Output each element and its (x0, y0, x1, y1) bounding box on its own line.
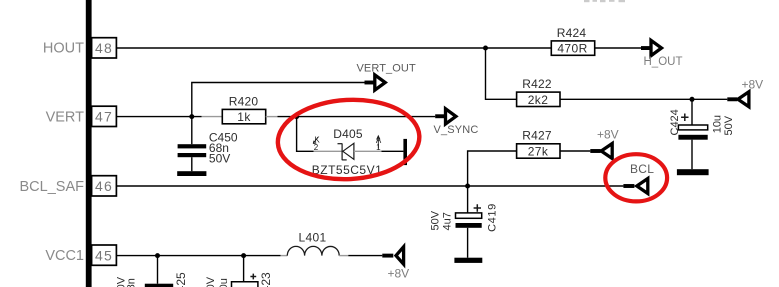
wire junction to C450 (191, 117, 193, 145)
lead L401 right (grey) (339, 255, 348, 257)
arrow VERT_OUT (365, 75, 386, 90)
svg-text:50V: 50V (723, 115, 735, 135)
lead R420 left (grey) (202, 116, 223, 118)
plus sign C423 (250, 274, 256, 280)
pin name K (313, 135, 320, 144)
svg-text:4u7: 4u7 (442, 212, 454, 230)
wire R427 to +8V (560, 150, 590, 152)
capacitor C419 (429, 203, 498, 232)
svg-text:470R: 470R (557, 42, 587, 56)
svg-text:45: 45 (95, 247, 113, 263)
svg-text:C425: C425 (174, 272, 188, 287)
pin 47 (92, 106, 117, 126)
svg-text:46: 46 (95, 178, 113, 194)
svg-text:50V: 50V (429, 210, 441, 230)
svg-text:L401: L401 (299, 230, 327, 244)
svg-text:V_SYNC: V_SYNC (434, 124, 479, 136)
lead R420 right (grey) (266, 116, 278, 118)
wire HOUT junction down to R422 (486, 48, 517, 99)
capacitor C450 (178, 130, 238, 165)
wire pin48 to R424 (117, 47, 552, 49)
svg-text:10u: 10u (711, 115, 723, 133)
wire L401 to +8V (348, 255, 382, 257)
terminal bar D405 anode (403, 139, 407, 165)
wire R420 to V_SYNC (278, 116, 436, 118)
node VCC1 junction 2 (241, 253, 246, 258)
arrow V_SYNC (435, 109, 456, 124)
wire pin45 to L401 (117, 255, 281, 257)
wire junction down to C419 (467, 186, 469, 213)
node VERT junction 2 (294, 114, 299, 119)
ground C424 (677, 169, 709, 175)
svg-text:10u: 10u (218, 278, 230, 287)
red ellipse around D405 (276, 96, 422, 183)
wire pin47 to R420 (117, 116, 202, 118)
wire junction down to C425 (157, 256, 159, 284)
svg-text:50V: 50V (205, 276, 217, 287)
svg-text:+8V: +8V (742, 78, 764, 92)
svg-text:HOUT: HOUT (43, 41, 84, 57)
capacitor C423 plate (cut off) (232, 282, 258, 287)
wire C450 to ground (191, 157, 193, 171)
arrow +8V middle (590, 144, 612, 159)
svg-text:47: 47 (95, 109, 113, 125)
svg-text:VERT_OUT: VERT_OUT (357, 62, 416, 74)
wire C424 to ground (691, 140, 693, 170)
svg-text:BCL_SAF: BCL_SAF (20, 179, 85, 195)
svg-text:27k: 27k (528, 145, 549, 159)
pin 46 (92, 176, 117, 196)
wire junction down to C424 (691, 99, 693, 125)
ground C419 (454, 258, 482, 263)
svg-text:C424: C424 (669, 109, 681, 135)
svg-text:C419: C419 (486, 203, 498, 232)
svg-text:R427: R427 (522, 129, 552, 143)
svg-text:+8V: +8V (597, 128, 619, 142)
wire R422 to +8V (560, 98, 727, 100)
arrow H_OUT (641, 40, 662, 55)
resistor R422 (517, 77, 560, 107)
capacitor C424 (669, 109, 735, 139)
svg-text:C423: C423 (259, 272, 273, 287)
lead D405 cathode (grey) (314, 150, 342, 152)
node C424 junction (690, 97, 695, 102)
node VCC1 junction 1 (155, 253, 160, 258)
svg-text:H_OUT: H_OUT (644, 56, 683, 68)
wire junction down to C423 (243, 256, 245, 282)
node HOUT junction (483, 46, 488, 51)
wire junction up to R427 (468, 151, 517, 186)
node VERT junction 1 (189, 114, 194, 119)
lead L401 left (grey) (281, 255, 288, 257)
arrow +8V bottom (382, 247, 403, 264)
red ellipse around BCL (605, 154, 667, 201)
wire C419 to ground (467, 228, 469, 258)
svg-text:2k2: 2k2 (528, 93, 549, 107)
ground C450 (177, 171, 206, 176)
zener diode D405 (338, 143, 354, 160)
resistor R427 (517, 129, 560, 159)
inductor L401 (287, 246, 339, 255)
node BCL_SAF junction (465, 184, 470, 189)
IC edge bar (86, 0, 92, 287)
svg-text:1: 1 (376, 143, 381, 152)
pin 48 (92, 38, 117, 58)
wire branch up to VERT_OUT (192, 83, 365, 117)
svg-text:68n: 68n (126, 278, 138, 287)
svg-text:BCL: BCL (630, 162, 654, 176)
svg-text:VCC1: VCC1 (45, 248, 84, 264)
pin name A (376, 136, 382, 149)
pin 45 (92, 245, 117, 265)
svg-text:+8V: +8V (388, 267, 410, 281)
svg-text:R422: R422 (522, 77, 552, 91)
arrow BCL (623, 179, 647, 194)
top cut-off label fragment (584, 0, 625, 2)
svg-text:2: 2 (314, 143, 319, 152)
wire D405 to terminal bar (382, 150, 404, 152)
svg-text:R424: R424 (557, 26, 587, 40)
capacitor C425 plate (cut off) (145, 284, 173, 287)
lead D405 anode (grey) (354, 150, 382, 152)
svg-text:R420: R420 (229, 94, 259, 108)
svg-text:48: 48 (95, 40, 113, 56)
wire R424 to H_OUT arrow (595, 47, 642, 49)
wire pin46 to BCL (117, 185, 624, 187)
wire VERT junction down to D405 (297, 117, 314, 152)
resistor R420 (222, 94, 265, 124)
svg-text:VERT: VERT (46, 109, 85, 125)
arrow +8V top right (727, 92, 749, 107)
svg-text:D405: D405 (333, 127, 363, 141)
svg-text:50V: 50V (209, 152, 230, 166)
resistor R424 (551, 26, 594, 56)
svg-text:1k: 1k (237, 110, 251, 124)
